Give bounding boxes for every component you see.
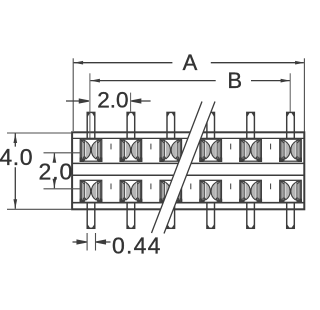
dim B ext right <box>289 73 291 112</box>
svg-text:2.0: 2.0 <box>39 158 74 184</box>
dim 0.44 ext right <box>95 233 97 251</box>
pin 4 bottom <box>207 203 215 229</box>
gap tick row1 <box>111 144 271 150</box>
dim 0.44 arrow right <box>96 240 111 244</box>
dim A ext right <box>303 58 305 131</box>
dim A arrow left <box>74 61 84 65</box>
contact B2 <box>120 180 142 202</box>
pin 4 top <box>207 112 215 138</box>
body line row2 bottom <box>72 202 304 204</box>
dim B ext left <box>89 73 91 138</box>
dim 4.0 arrow up <box>13 134 17 144</box>
dim 2.0 row ext bottom <box>44 188 81 190</box>
body line row1 bottom <box>72 162 304 164</box>
svg-text:4.0: 4.0 <box>0 144 33 170</box>
dim 2.0 row arrow up <box>53 153 57 163</box>
dim 0.44 ext left <box>86 233 88 251</box>
contact A4 <box>200 139 222 161</box>
contact A6 <box>280 139 302 161</box>
contact B1 <box>80 180 102 202</box>
dim 4.0 line <box>14 134 16 209</box>
pin 1 bottom <box>87 203 95 229</box>
dim 4.0 arrow down <box>13 199 17 209</box>
body line row1 top <box>72 137 304 139</box>
svg-text:A: A <box>183 50 198 75</box>
body fill <box>72 132 304 209</box>
body line row2 top <box>72 174 304 176</box>
dim 2.0 row arrow down <box>53 179 57 189</box>
dim 2.0 pitch arrow left <box>66 99 89 103</box>
dim 2.0 row line <box>53 153 55 188</box>
pin 5 bottom <box>247 203 255 229</box>
dim 4.0 ext top <box>7 132 72 134</box>
dim B line <box>90 80 290 82</box>
svg-text:0.44: 0.44 <box>112 232 162 258</box>
pin 2 bottom <box>127 203 135 229</box>
break band <box>152 102 216 234</box>
contact A1 <box>80 139 102 161</box>
pin 5 top <box>247 112 255 138</box>
contact B5 <box>240 180 262 202</box>
dim 2.0 pitch arrow right <box>131 99 150 103</box>
pin 6 bottom <box>287 203 295 229</box>
contact A3 <box>160 139 182 161</box>
dim B arrow right <box>281 79 291 83</box>
pin 3 bottom <box>167 203 175 229</box>
contact B6 <box>280 180 302 202</box>
dim 4.0 ext bottom <box>7 208 72 210</box>
pin 6 top <box>287 112 295 138</box>
pin 1 top <box>87 112 95 138</box>
gap tick row2 <box>111 184 271 190</box>
dim A line <box>74 62 304 64</box>
contact A5 <box>240 139 262 161</box>
pin 3 top <box>167 112 175 138</box>
dim B arrow left <box>90 79 100 83</box>
pin 2 top <box>127 112 135 138</box>
dim A arrow right <box>295 61 305 65</box>
contact B3 <box>160 180 182 202</box>
dim 2.0 row ext top <box>44 152 81 154</box>
break line right <box>164 102 215 234</box>
dim 0.44 arrow left <box>73 240 87 244</box>
svg-text:2.0: 2.0 <box>97 87 128 112</box>
dim A ext left <box>72 58 74 131</box>
svg-text:B: B <box>227 68 242 93</box>
break line left <box>152 102 203 234</box>
contact B4 <box>200 180 222 202</box>
body outline <box>72 132 304 209</box>
dim 2.0 pitch ext right <box>130 93 132 112</box>
contact A2 <box>120 139 142 161</box>
